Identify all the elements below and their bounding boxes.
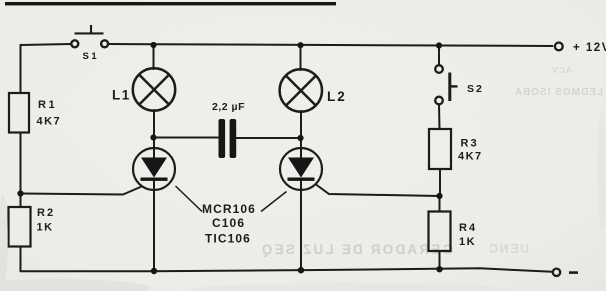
node top L1: [150, 42, 156, 48]
switch S2: [435, 65, 457, 104]
node bottom R4: [436, 266, 442, 272]
terminal minus: [553, 269, 560, 276]
wire top rail left segment: [21, 44, 71, 45]
lamp L1: [133, 68, 175, 110]
wire cap right to node B: [237, 137, 301, 139]
node R1/R2 junction: [17, 190, 23, 196]
svg-text:S1: S1: [83, 51, 100, 62]
wire L1 top: [153, 45, 155, 69]
wire S2 top lead: [438, 46, 440, 65]
lamp L2: [280, 69, 322, 111]
terminal +12V: [555, 43, 563, 51]
wire S2 bottom lead to R3: [438, 105, 441, 129]
SCR Q1: [133, 138, 175, 191]
wire L2 bottom to node: [300, 111, 302, 148]
svg-text:1K: 1K: [459, 236, 476, 248]
svg-text:LEDMOS ISOBA: LEDMOS ISOBA: [514, 87, 603, 98]
resistor R3: [429, 129, 451, 169]
node top S2: [436, 42, 442, 48]
wire SCR1 cathode to bottom rail: [153, 181, 155, 271]
faint page shading: [0, 110, 606, 291]
leader line to SCR1: [176, 186, 203, 212]
ghost bleed-through text bottom: [260, 242, 529, 257]
wire node A to cap left: [154, 137, 219, 139]
svg-text:L1: L1: [112, 88, 131, 103]
svg-text:1K: 1K: [37, 222, 54, 234]
svg-text:R4: R4: [459, 222, 477, 234]
top page-edge bar: [5, 2, 336, 5]
wire node C to R4: [439, 196, 441, 212]
svg-text:4K7: 4K7: [458, 151, 483, 163]
svg-text:C106: C106: [212, 216, 245, 230]
resistor R1: [9, 93, 29, 133]
node C (R3/R4 junction): [436, 193, 442, 199]
wire L2 top: [300, 45, 302, 70]
wire bottom rail: [21, 268, 553, 272]
wire L1 bottom to node: [153, 110, 155, 148]
wire SCR1 gate: [21, 187, 141, 195]
svg-text:+ 12V: + 12V: [573, 42, 606, 54]
svg-text:TIC106: TIC106: [205, 232, 251, 246]
leader line to SCR2: [261, 192, 287, 212]
wire R1 to junction: [20, 133, 22, 208]
node bottom SCR1: [151, 268, 157, 274]
resistor R4: [429, 212, 451, 252]
svg-text:R2: R2: [37, 207, 55, 219]
svg-text:GERADOR DE LUZ SEQ: GERADOR DE LUZ SEQ: [260, 242, 453, 257]
wire left rail (R1/R2 column): [20, 45, 22, 93]
wire R3 to node C: [439, 169, 441, 196]
node B (L2/cap/SCR2): [297, 135, 303, 141]
wire R4 to bottom rail: [439, 251, 441, 269]
wire R2 to bottom rail: [20, 247, 22, 272]
svg-text:ACV: ACV: [551, 65, 572, 75]
svg-text:2,2 µF: 2,2 µF: [212, 101, 245, 113]
svg-text:R3: R3: [461, 138, 479, 150]
svg-text:R1: R1: [38, 99, 57, 111]
switch S1: [71, 25, 108, 47]
node A (L1/cap/SCR1): [150, 134, 156, 140]
svg-text:4K7: 4K7: [37, 116, 62, 128]
capacitor C1 2,2uF: [219, 119, 237, 158]
wire SCR2 gate: [316, 185, 440, 197]
node top L2: [297, 42, 303, 48]
ghost bleed-through text right top: [514, 65, 603, 98]
SCR Q2: [280, 138, 322, 190]
svg-text:MCR106: MCR106: [202, 202, 256, 216]
wire SCR2 cathode to bottom rail: [300, 181, 302, 270]
svg-text:UENC: UENC: [488, 242, 529, 256]
wire top rail right segment: [109, 44, 553, 46]
svg-text:S2: S2: [467, 83, 484, 95]
node bottom SCR2: [298, 267, 304, 273]
svg-text:L2: L2: [327, 89, 347, 104]
resistor R2: [9, 207, 31, 247]
